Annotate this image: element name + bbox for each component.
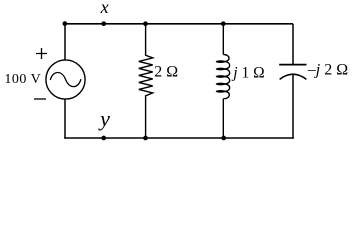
node y dot	[101, 136, 106, 141]
capacitor top plate	[279, 64, 306, 66]
inductor top dot	[221, 21, 226, 26]
capacitor top lead	[292, 24, 294, 66]
node x dot	[101, 21, 106, 26]
svg-text:100 V: 100 V	[4, 72, 41, 87]
wire top	[65, 23, 293, 25]
svg-text:j 1 Ω: j 1 Ω	[231, 64, 264, 81]
plus sign	[36, 48, 47, 59]
svg-text:2 Ω: 2 Ω	[154, 63, 178, 80]
capacitor bottom lead	[292, 75, 294, 139]
inductor loop lentils	[216, 60, 226, 63]
resistor top dot	[143, 21, 148, 26]
resistor R 2ohm	[139, 24, 153, 138]
inductor L top lead	[222, 24, 224, 55]
svg-text:x: x	[100, 0, 109, 17]
svg-text:y: y	[98, 106, 110, 131]
minus sign	[34, 98, 46, 100]
inductor bottom dot	[221, 136, 226, 141]
inductor coil arcs	[223, 54, 229, 98]
inductor bottom lead	[222, 99, 224, 138]
source V1 circle	[46, 60, 85, 99]
node dot top-left	[62, 21, 67, 26]
svg-text:–j 2 Ω: –j 2 Ω	[307, 62, 348, 79]
wire bottom	[64, 137, 293, 139]
source sine wave	[50, 73, 81, 87]
capacitor bottom plate arc	[280, 74, 307, 79]
resistor bottom dot	[143, 136, 148, 141]
wire source top lead	[64, 24, 66, 60]
wire source bottom lead	[64, 99, 66, 139]
